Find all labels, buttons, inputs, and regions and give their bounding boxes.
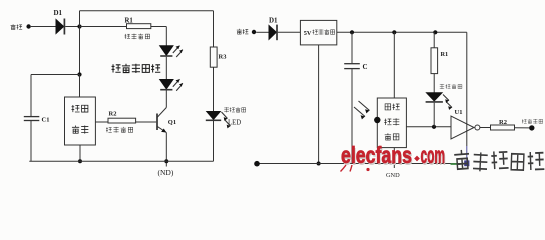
bottom rail terminal dot [254, 161, 260, 167]
wire decoder box to U1 [406, 126, 451, 128]
svg-text:R1: R1 [125, 17, 134, 24]
wire R2 to Q1 base [136, 121, 157, 123]
photodiode receiver dot on box edge [374, 117, 380, 123]
resistor R2 [108, 118, 136, 123]
capacitor C [344, 63, 360, 65]
wire LED1 to LED2 [165, 57, 167, 80]
wire down to decoder box [393, 32, 395, 98]
svg-text:R2: R2 [109, 111, 117, 118]
wire down to R1 [433, 32, 435, 48]
IR LED1 [160, 46, 173, 55]
svg-text:Q1: Q1 [168, 119, 176, 126]
node: cap C junction on top rail [350, 30, 354, 34]
wire down to capacitor C [351, 32, 353, 63]
IR LED2 [160, 80, 173, 89]
wire U1 output to R2 [480, 127, 491, 129]
node: decoder branch junction on top rail [392, 30, 396, 34]
node: emitter/bottom rail junction [164, 159, 168, 163]
wire R2 to output terminal [515, 127, 530, 129]
svg-text:U1: U1 [455, 109, 463, 116]
power terminal dot (right) [252, 30, 256, 34]
op-amp / inverter U1 [451, 116, 474, 139]
wire C to bottom rail [351, 69, 353, 163]
wire left rail down to C1 [30, 75, 32, 117]
wire junction to left rail [31, 74, 80, 76]
watermark elecfans.com [341, 142, 446, 171]
label 电源 (right power) [237, 29, 249, 34]
svg-text:elecfans: elecfans [341, 142, 412, 168]
wire junction to R1 [80, 26, 127, 28]
svg-text:GND: GND [386, 172, 400, 179]
wire LED to bottom rail [213, 121, 215, 161]
right rail vertical [466, 32, 468, 146]
svg-text:D1: D1 [54, 9, 63, 17]
blue junction square [464, 160, 469, 166]
svg-text:C1: C1 [42, 116, 50, 123]
svg-text:R3: R3 [219, 53, 228, 60]
top rail (right circuit) [337, 31, 467, 33]
resistor R2 (right) [491, 125, 515, 130]
wire encoder to R2 [95, 121, 108, 123]
wire down to encoder box [79, 75, 81, 98]
capacitor C1 [24, 116, 40, 118]
wire LED down to junction [433, 103, 435, 127]
label 输出信号 [522, 119, 543, 124]
indicator LED (left) [207, 112, 221, 120]
wire decoder box bottom to rail [393, 148, 395, 168]
wire D1 to 5V box [278, 31, 301, 33]
wire D1 to junction [65, 26, 79, 28]
label 限流电阻 under R2 [106, 127, 133, 133]
label 工作指示 (right) [440, 84, 462, 89]
encoder box 编码电路 [65, 97, 96, 145]
wire power dot to D1 [31, 26, 56, 28]
diode D1 (right) [269, 26, 276, 40]
node: junction after D1 [77, 24, 81, 28]
node: R1 branch junction on top rail [433, 30, 437, 34]
wire to D1 [256, 31, 269, 33]
node: LED branch junction [432, 125, 436, 129]
label 限流电阻 under R1 [125, 34, 150, 40]
resistor R1 [127, 24, 151, 29]
wire vertical from top rail through junction down [79, 11, 81, 75]
svg-text:R2: R2 [499, 119, 507, 126]
wire encoder box bottom to rail [79, 145, 81, 161]
svg-text:com: com [421, 142, 446, 168]
resistor R3 [210, 47, 217, 67]
svg-text:R1: R1 [441, 51, 449, 58]
label 电源 (left power) [11, 24, 23, 29]
wire 5V box bottom to bottom rail [318, 45, 320, 164]
output terminal dot [529, 125, 534, 130]
5V regulator box [300, 20, 336, 45]
svg-text:5V: 5V [304, 30, 312, 37]
wire R1 to indicator LED [433, 74, 435, 93]
wire down to LED1 [165, 27, 167, 46]
power terminal dot [26, 24, 30, 28]
watermark 电子发烧友 (calligraphy, drawn as fake glyphs) [454, 149, 544, 171]
label 工作指示 (left) [224, 107, 245, 112]
svg-text:(ND): (ND) [158, 168, 174, 177]
wire R3 to indicator LED [213, 67, 215, 111]
resistor R3 branch: top rail corner down [213, 11, 215, 47]
watermark shadow [342, 144, 446, 170]
wire R1 to LED branch corner [151, 26, 167, 28]
node: junction left branch [77, 72, 81, 76]
svg-text:D1: D1 [269, 17, 278, 25]
diode D1 [56, 20, 64, 34]
svg-text:LED: LED [228, 119, 241, 126]
wire LED2 to Q1 collector [165, 91, 167, 108]
label 红外发射管 [112, 64, 161, 73]
wire C1 to bottom rail [30, 121, 32, 161]
indicator LED (right) [427, 93, 443, 101]
bottom rail (left circuit) [29, 160, 213, 162]
receiver light arrows [354, 101, 370, 117]
node: box/rail junction [78, 159, 82, 163]
green watermark segment on rail [451, 163, 461, 165]
wire top rail [80, 10, 214, 12]
decoder box 模数译码电路 [377, 98, 406, 148]
resistor R1 (right) [431, 48, 438, 74]
svg-text:C: C [363, 63, 368, 71]
node: box bottom/rail junction [317, 162, 321, 166]
wire Q1 emitter down to bottom rail [165, 133, 167, 167]
transistor Q1 [157, 108, 166, 118]
bottom rail (right circuit) [257, 163, 467, 165]
